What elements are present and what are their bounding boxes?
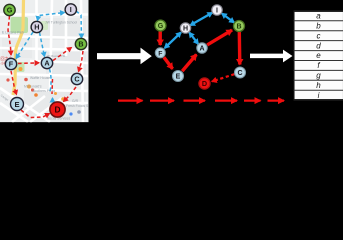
graph node B xyxy=(234,21,245,32)
svg-text:B: B xyxy=(236,24,241,31)
map blue dashed route H->F xyxy=(16,32,33,59)
svg-text:D: D xyxy=(54,105,60,115)
map red dashed route A->B xyxy=(53,48,72,61)
svg-text:c: c xyxy=(317,31,321,40)
svg-text:A: A xyxy=(44,59,49,68)
map red dashed route B->C xyxy=(79,51,84,72)
bottom arrow 4 xyxy=(215,99,237,101)
tiny POI markers xyxy=(19,67,23,71)
svg-text:D: D xyxy=(202,79,207,88)
svg-text:d: d xyxy=(316,41,321,50)
svg-text:H: H xyxy=(183,26,188,33)
red edge A->B xyxy=(207,30,232,45)
map red dashed route G->F xyxy=(8,16,11,55)
blue edge H-A xyxy=(189,33,198,44)
road grid white xyxy=(0,0,88,122)
svg-text:G: G xyxy=(158,23,164,30)
blue edge I-B xyxy=(222,14,234,23)
graph node C xyxy=(235,67,246,78)
red dashed edge C->D xyxy=(212,74,235,81)
graph node H xyxy=(180,23,190,33)
red edge E->A xyxy=(182,55,196,72)
bottom arrow 6 xyxy=(268,99,285,101)
map red dashed route E->bottom xyxy=(21,110,50,118)
svg-text:h: h xyxy=(316,81,321,90)
bottom arrow 5 xyxy=(244,99,261,101)
map blue dashed route A->down xyxy=(50,69,52,92)
map node G xyxy=(4,4,15,15)
svg-text:Fresh Foods S: Fresh Foods S xyxy=(66,104,89,108)
svg-text:C: C xyxy=(74,75,79,84)
bottom arrow 2 xyxy=(150,99,174,101)
svg-text:E Lucens Park: E Lucens Park xyxy=(2,31,24,35)
svg-text:E: E xyxy=(176,74,181,81)
svg-text:H: H xyxy=(34,23,39,32)
graph node D xyxy=(199,78,210,89)
graph node F xyxy=(155,48,165,58)
map node H xyxy=(31,21,42,32)
blue edge H-I xyxy=(190,13,212,26)
svg-text:I: I xyxy=(216,8,218,15)
svg-text:A: A xyxy=(199,46,204,53)
grey street labels xyxy=(0,21,89,121)
graph node I xyxy=(212,5,222,15)
map node B xyxy=(75,38,86,49)
svg-text:F: F xyxy=(158,50,162,57)
red edge F->E xyxy=(164,57,173,69)
map node C xyxy=(71,73,82,84)
map blue dashed route I->B xyxy=(76,11,82,38)
blue edge F-H xyxy=(165,33,181,49)
graph node G xyxy=(155,20,166,31)
svg-text:E: E xyxy=(14,100,19,109)
graph node E xyxy=(173,71,184,82)
svg-text:G/R: G/R xyxy=(72,99,79,103)
svg-text:a: a xyxy=(316,12,321,21)
svg-text:McDonald's: McDonald's xyxy=(24,85,42,89)
svg-text:e: e xyxy=(316,51,321,60)
map red dashed route F->A xyxy=(18,62,39,65)
bottom arrow 3 xyxy=(184,99,206,101)
park green patch xyxy=(11,17,29,33)
map node I xyxy=(65,4,76,15)
bottom arrow 1 xyxy=(118,99,143,101)
map red dashed route F->E xyxy=(11,71,17,95)
map node A xyxy=(41,57,52,68)
map blue dashed route H->A xyxy=(40,33,45,57)
svg-text:b: b xyxy=(316,22,321,31)
svg-text:F: F xyxy=(9,60,14,69)
city blocks slightly darker xyxy=(40,18,86,40)
svg-text:JW Turlington School: JW Turlington School xyxy=(45,21,77,25)
map node E xyxy=(11,98,24,111)
map red dashed segment above D xyxy=(51,79,54,94)
map blue arrowhead near D xyxy=(52,98,54,102)
svg-text:I: I xyxy=(70,5,72,14)
map node F xyxy=(5,58,16,69)
map node D xyxy=(50,102,65,117)
svg-text:G: G xyxy=(7,6,13,15)
svg-text:g: g xyxy=(316,71,321,80)
diagonal streets bottom-left xyxy=(0,88,50,122)
svg-text:C: C xyxy=(237,70,242,77)
map blue dashed route H<->I xyxy=(38,13,65,21)
map background xyxy=(0,0,89,122)
svg-text:i: i xyxy=(318,91,320,100)
yellow main road xyxy=(13,0,24,95)
svg-text:B: B xyxy=(78,40,83,49)
svg-text:Waffle House: Waffle House xyxy=(30,76,50,80)
graph node A xyxy=(197,43,207,53)
red edge B->C xyxy=(238,32,242,65)
map red dashed route C->D xyxy=(64,87,77,102)
red edge G->F xyxy=(158,32,161,46)
